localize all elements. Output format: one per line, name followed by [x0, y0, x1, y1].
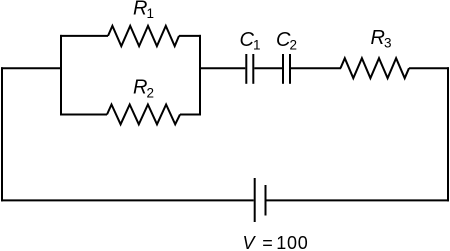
battery V (long plate) — [254, 178, 256, 222]
svg-text:2: 2 — [147, 86, 155, 101]
resistor R3 — [341, 58, 410, 78]
svg-text:1: 1 — [253, 38, 261, 53]
capacitor C2 (left plate) — [282, 54, 284, 84]
wire (left vertical) — [1, 67, 3, 201]
svg-text:R: R — [371, 27, 385, 49]
wire (parallel block left vertical) — [60, 35, 62, 116]
wire (block to C1) — [199, 67, 245, 69]
wire (parallel block right vertical) — [199, 35, 201, 116]
capacitor C1 (left plate) — [245, 54, 247, 84]
svg-text:100: 100 — [276, 233, 308, 251]
wire (R3 to right) — [409, 67, 449, 69]
svg-text:=: = — [262, 233, 273, 251]
label C1 — [240, 29, 261, 53]
svg-text:1: 1 — [147, 6, 155, 21]
svg-text:V: V — [243, 233, 257, 251]
wire (bottom left segment) — [1, 199, 254, 201]
wire (bottom branch left) — [60, 114, 107, 116]
wire (left input horizontal) — [1, 67, 62, 69]
wire (top branch left) — [60, 35, 108, 37]
wire (right vertical) — [447, 67, 449, 201]
battery V (short plate) — [265, 185, 267, 216]
svg-text:2: 2 — [290, 38, 298, 53]
resistor R1 — [108, 26, 179, 46]
wire (bottom branch right) — [180, 114, 201, 116]
wire (bottom right segment) — [267, 199, 450, 201]
svg-text:R: R — [133, 0, 147, 20]
wire (C1 to C2) — [254, 67, 282, 69]
label V = 100 — [243, 233, 309, 251]
svg-text:3: 3 — [384, 36, 392, 51]
svg-text:R: R — [133, 77, 147, 99]
label C2 — [276, 29, 297, 53]
label R1 — [133, 0, 154, 21]
label R3 — [371, 27, 392, 51]
capacitor C2 (right plate) — [289, 54, 291, 84]
label R2 — [133, 77, 154, 101]
capacitor C1 (right plate) — [252, 54, 254, 84]
resistor R2 — [107, 105, 180, 125]
wire (C2 to R3) — [291, 67, 341, 69]
wire (top branch right) — [179, 35, 201, 37]
